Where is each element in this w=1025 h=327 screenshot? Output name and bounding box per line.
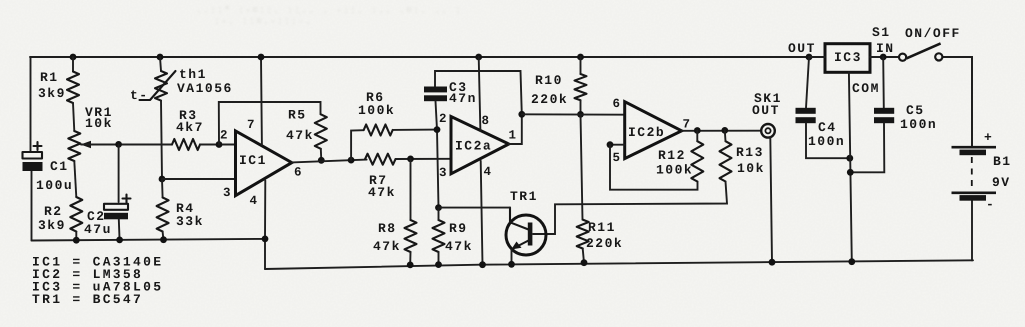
wire IC3 IN to switch [870, 56, 899, 58]
wire R12 top lead [696, 131, 698, 142]
node junction R9 / ground rail [435, 261, 442, 268]
svg-text:S1: S1 [872, 25, 891, 40]
svg-text:R2: R2 [44, 204, 63, 219]
capacitor C3 bottom plate [424, 95, 447, 101]
wire R6 to IC2a pin2 node [393, 129, 437, 131]
wire top supply rail [30, 56, 809, 58]
capacitor C4 bottom plate [796, 117, 816, 123]
capacitor C1 plus sign [34, 142, 42, 150]
node junction output / R13 [721, 127, 728, 134]
svg-text:3: 3 [439, 166, 447, 180]
node junction C2 / ground rail [116, 237, 123, 244]
switch S1 lever [906, 43, 940, 58]
wire R9 top lead [438, 208, 440, 220]
transistor TR1 emitter stroke [514, 241, 529, 249]
socket SK1 inner ring [765, 128, 770, 133]
resistor R8 [405, 220, 417, 252]
capacitor C5 bottom plate [874, 117, 894, 123]
node junction R8 / ground rail [407, 262, 414, 269]
wire IC2a pin 8 supply [479, 57, 481, 131]
svg-text:7: 7 [683, 118, 691, 132]
svg-text:IN: IN [876, 41, 895, 56]
node junction R9 / TR1 collector [435, 204, 442, 211]
wire IC2a output bend [509, 114, 522, 144]
potentiometer VR1 wiper arrow [81, 141, 92, 148]
capacitor C5 top plate [874, 108, 894, 114]
svg-text:4: 4 [484, 165, 492, 179]
wire C4 top lead [806, 57, 809, 108]
svg-text:R5: R5 [288, 108, 307, 123]
node junction pin4 / ground rail corner [262, 236, 269, 243]
wire R5 bottom lead [320, 149, 323, 161]
svg-text:VA1056: VA1056 [177, 81, 233, 96]
svg-text:3: 3 [223, 186, 231, 200]
svg-text:47k: 47k [286, 128, 314, 143]
node junction top rail / R1 [70, 54, 77, 61]
svg-text:47u: 47u [84, 222, 112, 237]
node junction TR1 emitter / ground rail [508, 261, 515, 268]
battery B1 top minus plate (thick) [960, 150, 987, 156]
svg-text:100n: 100n [808, 134, 845, 149]
svg-text:2: 2 [220, 129, 228, 143]
svg-text:R11: R11 [588, 220, 616, 235]
wire R5 top link from pin2 [219, 102, 321, 145]
resistor R9 [433, 220, 445, 252]
resistor R6 [364, 125, 393, 136]
wire R3 to IC1 pin 2 [200, 144, 236, 146]
capacitor C1 bottom plate (solid) [23, 162, 43, 171]
node junction output / R6 branch [348, 157, 355, 164]
svg-text:IC1: IC1 [239, 153, 267, 168]
svg-text:3k9: 3k9 [38, 86, 66, 101]
node junction OUT / C4 [806, 54, 813, 61]
wire IC1 pin 7 supply [260, 57, 263, 145]
thermistor th1 body [155, 71, 167, 101]
svg-text:100n: 100n [900, 117, 937, 132]
svg-text:220k: 220k [531, 92, 568, 107]
svg-text:ON/OFF: ON/OFF [905, 26, 961, 41]
wire right edge (battery up to switch) [943, 57, 973, 148]
transistor TR1 base bar [528, 223, 533, 246]
wire R2 bottom lead [75, 232, 77, 241]
svg-text:4k7: 4k7 [176, 120, 204, 135]
wire IC2a pin 4 to ground [481, 161, 483, 265]
wire R9 bottom lead [438, 252, 440, 265]
svg-text:5: 5 [613, 151, 621, 165]
resistor R10 [575, 74, 587, 100]
wire th1 top lead [160, 57, 161, 71]
svg-text:R9: R9 [449, 221, 468, 236]
wire C3 bottom lead [436, 101, 438, 129]
resistor R1 [67, 72, 79, 103]
battery B1 lower plus plate (long) [952, 192, 997, 195]
node junction wiper / C2 [115, 141, 122, 148]
svg-text:1: 1 [509, 129, 517, 143]
svg-text:COM: COM [852, 81, 880, 96]
svg-text:R12: R12 [658, 148, 686, 163]
svg-text:R13: R13 [736, 145, 764, 160]
wire IC1 pin 4 down to ground step [264, 181, 266, 239]
node junction th1 / R4 / IC1 pin3 [159, 176, 166, 183]
node junction top rail / IC1 pin7 [258, 54, 265, 61]
wire right edge (rail up to battery) [971, 200, 973, 261]
svg-text:10k: 10k [737, 161, 765, 176]
svg-text:IC2b: IC2b [628, 125, 665, 140]
svg-text:C5: C5 [906, 103, 925, 118]
node junction top rail / R10 [577, 54, 584, 61]
svg-text:OUT: OUT [788, 41, 816, 56]
svg-text:6: 6 [294, 166, 302, 180]
node junction C4 / COM line [846, 155, 853, 162]
wire VR1 to R2 [74, 161, 76, 197]
svg-text:OUT: OUT [752, 103, 780, 118]
wire bottom-left ground rail [32, 239, 266, 241]
battery B1 dashed link [971, 157, 973, 191]
svg-text:B1: B1 [993, 154, 1012, 169]
wire C4 bottom link to COM [806, 123, 850, 158]
switch S1 right contact [935, 53, 942, 60]
node junction IC2a output / C3 / R10 [518, 111, 525, 118]
wire IC1 pin 3 [162, 178, 236, 180]
svg-text:100u: 100u [36, 178, 73, 193]
resistor R3 [172, 139, 200, 150]
svg-text:C1: C1 [50, 159, 69, 174]
node junction COM / ground rail [848, 258, 855, 265]
svg-text:4: 4 [250, 194, 258, 208]
svg-text:47k: 47k [373, 239, 401, 254]
resistor R2 [70, 197, 82, 232]
wire R10 top lead [580, 57, 582, 74]
svg-text:t-: t- [130, 88, 149, 103]
svg-text:R1: R1 [40, 70, 59, 85]
wire R6 left link [351, 130, 364, 160]
node junction IC1 pin2 / R5 branch [216, 141, 223, 148]
capacitor C4 top plate [796, 108, 816, 114]
svg-text:47k: 47k [445, 239, 473, 254]
svg-text:9V: 9V [992, 175, 1011, 190]
capacitor C3 top plate [424, 87, 447, 93]
wire R1 to VR1 [73, 103, 74, 131]
node junction IC2a pin2 [434, 126, 441, 133]
capacitor C2 plus sign [123, 195, 131, 203]
resistor R13 [720, 141, 732, 181]
node junction R7 / R8 [407, 156, 414, 163]
node junction R4 / ground rail [160, 236, 167, 243]
svg-text:100k: 100k [358, 103, 395, 118]
potentiometer VR1 body [68, 131, 80, 161]
switch S1 left contact [899, 54, 906, 61]
svg-text:100k: 100k [656, 163, 693, 178]
svg-text:C4: C4 [818, 120, 837, 135]
wire ground rail step down at x=265 [264, 239, 266, 269]
svg-text:IC2a: IC2a [455, 139, 492, 154]
capacitor C1 top plate (electrolytic, hollow) [23, 152, 43, 159]
resistor R4 [157, 198, 169, 232]
regulator IC3 box [825, 44, 870, 73]
resistor R7 [365, 154, 395, 165]
wire C3 top link [435, 71, 522, 114]
svg-text:-: - [986, 197, 995, 212]
wire SK1 sleeve to ground [770, 137, 772, 262]
wire OUT dot to IC3 box [809, 56, 825, 58]
svg-text:TR1 = BC547: TR1 = BC547 [32, 292, 143, 307]
node junction pin5 / feedback [607, 141, 614, 148]
node junction IN / C5 [880, 54, 887, 61]
wire R7 to IC2a pin 3 [396, 158, 452, 160]
wire R11 bottom lead [583, 249, 584, 263]
svg-text:3k9: 3k9 [38, 218, 66, 233]
svg-text:TR1: TR1 [510, 189, 538, 204]
thermistor th1 temperature stroke [140, 71, 176, 100]
svg-text:47k: 47k [368, 185, 396, 200]
transistor TR1 emitter arrowhead [511, 242, 521, 250]
svg-text:2: 2 [439, 112, 447, 126]
wire C2 top lead [118, 144, 120, 202]
wire C5 top lead [882, 57, 885, 108]
node junction output / R12 [694, 127, 701, 134]
wire IC2b pin 5 lead [610, 144, 625, 146]
wire TR1 emitter to ground [511, 250, 513, 265]
svg-text:th1: th1 [179, 67, 207, 82]
node junction R5 / IC1 output [318, 157, 325, 164]
wire IC2b output [682, 130, 761, 132]
svg-text:33k: 33k [176, 214, 204, 229]
op-amp IC2b triangle [625, 102, 682, 159]
socket SK1 outer ring [761, 124, 775, 138]
svg-text:220k: 220k [586, 236, 623, 251]
svg-text:7: 7 [247, 118, 255, 132]
wire R8 bottom lead [409, 252, 411, 265]
transistor TR1 circle [506, 215, 546, 255]
wire R4 bottom lead [162, 232, 165, 241]
svg-text:6: 6 [613, 97, 621, 111]
wire R9 / pin2 vertical [437, 130, 439, 208]
node junction IC2a pin4 / ground rail [479, 261, 486, 268]
op-amp IC1 triangle [236, 131, 292, 196]
node junction SK1 / ground rail [769, 259, 776, 266]
wire R4 top lead [161, 179, 164, 198]
resistor R11 [577, 220, 589, 249]
svg-text:8: 8 [482, 114, 490, 128]
transistor TR1 collector stroke [510, 208, 529, 230]
wire R11 top lead [581, 114, 583, 219]
svg-text:10k: 10k [85, 116, 113, 131]
node junction R2 / ground rail [73, 237, 80, 244]
wire IC2b feedback loop [610, 145, 698, 190]
battery B1 plus plate (long) [952, 146, 997, 149]
node junction top rail / th1 [157, 54, 164, 61]
wire VR1 wiper to R3 (node A) [81, 144, 172, 146]
capacitor C2 bottom plate (solid) [104, 213, 128, 220]
wire R8 top lead [410, 159, 412, 220]
paper noise texture [0, 0, 1, 1]
wire C2 bottom lead [118, 219, 121, 241]
svg-text:IC3: IC3 [834, 50, 862, 65]
resistor R5 [315, 114, 327, 149]
wire left edge (top-left corner down to C1) [30, 57, 32, 152]
wire C5 bottom link to COM [850, 123, 884, 172]
wire battery top lead [971, 57, 973, 146]
wire th1 to IC1 pin 3 node [161, 101, 162, 179]
wire R10 bottom lead [580, 100, 582, 114]
node junction C5 / COM line [847, 169, 854, 176]
battery B1 bottom minus plate (thick) [960, 195, 987, 201]
node junction top rail / IC2a pin8 [475, 54, 482, 61]
wire bottom-right ground rail [265, 260, 973, 269]
resistor R12 [691, 141, 703, 181]
wire IC1 output [292, 160, 367, 163]
node junction R11 / ground rail [581, 259, 588, 266]
wire IC2a output to IC2b pin6 [522, 113, 625, 115]
capacitor C2 top plate (electrolytic, hollow) [104, 204, 128, 210]
wire R13 top lead [724, 130, 727, 141]
wire R1 top lead [72, 57, 74, 72]
wire R13 bottom to TR1 base [533, 182, 727, 235]
node junction R10 / signal wire / R11 [577, 111, 584, 118]
svg-text:+: + [984, 130, 993, 145]
svg-text:R8: R8 [378, 221, 397, 236]
wire TR1 collector link to R9 node [439, 207, 511, 209]
op-amp IC2a triangle [451, 117, 509, 174]
svg-text:47n: 47n [449, 91, 477, 106]
wire IC3 COM to ground [849, 72, 852, 261]
svg-text:R10: R10 [535, 73, 563, 88]
wire left edge (C1 bottom to rail) [31, 171, 33, 241]
